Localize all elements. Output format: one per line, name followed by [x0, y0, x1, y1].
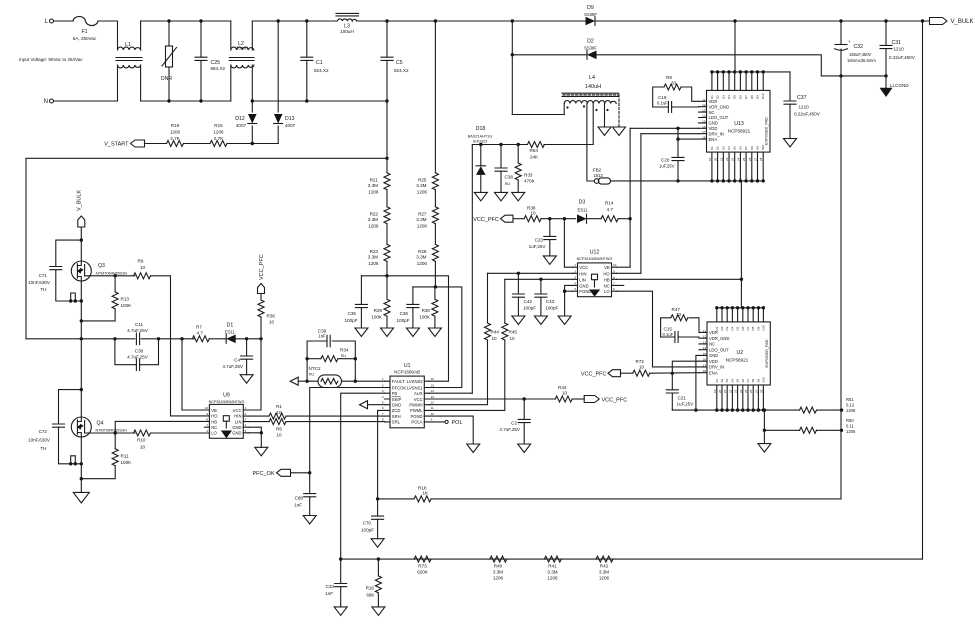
svg-text:R10: R10 — [137, 438, 146, 443]
capacitor C35 — [344, 276, 367, 328]
svg-text:10: 10 — [639, 365, 645, 370]
svg-text:C33: C33 — [326, 584, 335, 589]
svg-text:nu: nu — [309, 372, 314, 377]
resistor R23 — [368, 244, 390, 275]
svg-text:C36: C36 — [400, 311, 409, 316]
svg-text:DNR: DNR — [161, 76, 172, 82]
resistor R47 — [661, 307, 699, 337]
wire bulk to L4 — [512, 114, 564, 116]
svg-text:1K: 1K — [423, 491, 430, 496]
svg-text:5: 5 — [574, 287, 576, 291]
svg-text:13: 13 — [702, 109, 706, 113]
svg-text:824,X2: 824,X2 — [394, 68, 409, 73]
svg-text:R21: R21 — [370, 178, 379, 183]
wire N rail L1 to C5 — [141, 100, 387, 102]
svg-text:100pF: 100pF — [344, 318, 357, 323]
svg-text:D4: D4 — [727, 95, 731, 99]
IC U13 — [699, 72, 771, 181]
svg-text:R44: R44 — [491, 330, 500, 335]
svg-text:VDR_GND: VDR_GND — [709, 336, 729, 341]
svg-text:S3: S3 — [721, 146, 725, 150]
ground D18 — [474, 192, 487, 201]
svg-text:Q4: Q4 — [97, 421, 104, 427]
diode D13 — [274, 19, 296, 143]
svg-text:R7: R7 — [196, 325, 202, 330]
svg-text:D7: D7 — [744, 95, 748, 99]
svg-text:18: 18 — [703, 369, 707, 373]
svg-text:13: 13 — [431, 395, 435, 399]
svg-text:10: 10 — [140, 445, 146, 450]
wire U2 VDD tie — [671, 361, 699, 375]
capacitor C31 — [880, 19, 916, 88]
inductor L3 — [336, 13, 359, 34]
svg-text:VCC_PFC: VCC_PFC — [473, 217, 499, 223]
svg-text:R23: R23 — [370, 249, 379, 254]
svg-text:R33: R33 — [524, 173, 533, 178]
flag PFC_OK — [252, 469, 290, 477]
svg-text:20: 20 — [714, 157, 718, 161]
svg-text:nu: nu — [505, 181, 510, 186]
svg-text:HIN: HIN — [579, 271, 586, 276]
wire chain2 — [434, 21, 436, 173]
svg-text:0.11: 0.11 — [846, 424, 855, 429]
svg-text:C19: C19 — [658, 95, 667, 100]
wire L4 to FB2 — [587, 104, 594, 182]
wire shunt return — [840, 76, 842, 499]
svg-text:HB: HB — [211, 419, 217, 424]
svg-text:27: 27 — [754, 157, 758, 161]
svg-text:VCC: VCC — [414, 397, 423, 402]
svg-text:1206: 1206 — [368, 190, 379, 195]
resistor R6 — [248, 419, 384, 438]
svg-text:100K: 100K — [121, 303, 133, 308]
svg-text:DRV_IN: DRV_IN — [709, 131, 724, 136]
svg-text:NCP1680AB: NCP1680AB — [394, 370, 420, 375]
wire bottom rail — [339, 557, 923, 560]
svg-text:11: 11 — [703, 329, 706, 333]
svg-text:0.22uF,450V: 0.22uF,450V — [794, 112, 821, 117]
svg-text:L4: L4 — [589, 75, 595, 81]
svg-text:NCP51530BMNTWG: NCP51530BMNTWG — [209, 400, 245, 404]
svg-text:C1: C1 — [316, 60, 323, 66]
resistor R33 — [515, 145, 535, 193]
svg-text:C35: C35 — [348, 311, 357, 316]
wire U2 top bus — [715, 306, 765, 309]
svg-text:4007: 4007 — [236, 123, 247, 128]
svg-text:LLCGND: LLCGND — [890, 83, 909, 88]
wire U13 ENA net — [676, 137, 698, 140]
svg-text:D2: D2 — [720, 326, 724, 330]
svg-text:1206: 1206 — [493, 576, 504, 581]
svg-text:4.7uF,25V: 4.7uF,25V — [499, 427, 521, 432]
svg-text:S5: S5 — [733, 146, 737, 150]
svg-text:100pF: 100pF — [545, 306, 558, 311]
svg-text:3.3M: 3.3M — [368, 255, 378, 260]
svg-text:HIN: HIN — [234, 414, 241, 419]
wire SW rail — [81, 337, 194, 340]
svg-text:R22: R22 — [370, 212, 379, 217]
svg-text:S6: S6 — [741, 378, 745, 382]
ground C2 — [518, 444, 531, 453]
resistor R73 — [414, 556, 431, 574]
resistor R19 — [145, 123, 184, 147]
wire PFC_OK — [291, 471, 312, 474]
svg-text:100pF: 100pF — [396, 318, 409, 323]
svg-text:Input Voltage: 90Vac to 264Vac: Input Voltage: 90Vac to 264Vac — [19, 57, 83, 62]
resistor R50 — [763, 410, 856, 434]
node NTC left — [305, 359, 357, 383]
resistor R15 — [184, 123, 228, 147]
svg-text:22: 22 — [728, 389, 732, 393]
svg-text:D8: D8 — [751, 326, 755, 330]
svg-text:12: 12 — [431, 401, 435, 405]
wire L input — [54, 20, 74, 22]
ground U9 — [255, 447, 268, 456]
svg-text:C38: C38 — [505, 175, 514, 180]
svg-text:R19: R19 — [171, 123, 180, 128]
svg-text:C68: C68 — [295, 496, 304, 501]
wire N to divider — [385, 101, 388, 173]
svg-text:N: N — [44, 99, 48, 105]
flag VCC_PFC vertical — [258, 254, 265, 300]
wire U12 GND PGND — [563, 285, 573, 316]
svg-text:9: 9 — [431, 418, 433, 422]
capacitor C25 — [195, 19, 226, 102]
svg-text:1: 1 — [245, 406, 247, 410]
svg-text:22: 22 — [725, 157, 729, 161]
resistor R25 — [416, 173, 438, 207]
wire U13 drain riser — [733, 19, 736, 72]
resistor R30 — [419, 287, 438, 328]
svg-text:C21: C21 — [678, 396, 687, 401]
capacitor C21 — [666, 373, 694, 410]
svg-text:0.22uF,450V: 0.22uF,450V — [889, 55, 916, 60]
svg-text:5A, 250Vac: 5A, 250Vac — [73, 36, 97, 41]
arrow GND pin — [360, 401, 385, 409]
capacitor C43 — [535, 279, 559, 316]
wire U2 GND riser — [696, 355, 699, 410]
wire U2 bottom bus — [672, 408, 799, 411]
svg-text:NTMT064N65S3H: NTMT064N65S3H — [96, 272, 127, 276]
svg-text:D2: D2 — [587, 39, 594, 45]
svg-text:U13: U13 — [734, 121, 744, 127]
ground R50 — [758, 444, 771, 453]
svg-text:100pF: 100pF — [361, 528, 374, 533]
wire V_START to D12 D13 — [227, 142, 278, 145]
resistor R29 — [371, 276, 390, 328]
svg-text:C4: C4 — [234, 358, 240, 363]
svg-text:D5: D5 — [733, 95, 737, 99]
IC U9 — [204, 393, 248, 439]
svg-text:EXPOSED_PAD: EXPOSED_PAD — [765, 117, 769, 145]
svg-text:12: 12 — [702, 103, 706, 107]
svg-text:D8: D8 — [750, 95, 754, 99]
capacitor C4 — [222, 339, 252, 375]
svg-text:17: 17 — [702, 130, 706, 134]
flag V_BULK — [930, 18, 974, 26]
svg-text:+: + — [848, 39, 851, 44]
svg-text:100pF: 100pF — [523, 306, 536, 311]
svg-text:LIN: LIN — [579, 277, 586, 282]
wire Q3 gate — [85, 274, 135, 277]
svg-text:2.7K: 2.7K — [214, 136, 224, 141]
flag VCC_PFC mid — [473, 215, 513, 223]
wire Q4 source — [80, 437, 82, 492]
svg-text:R34: R34 — [340, 348, 349, 353]
svg-text:FB2: FB2 — [593, 168, 602, 173]
svg-text:4: 4 — [245, 423, 247, 427]
wire FB riser — [341, 393, 385, 559]
svg-text:SS38F: SS38F — [584, 12, 597, 17]
svg-text:24K: 24K — [530, 155, 539, 160]
Q3 gate bracket — [69, 293, 83, 303]
svg-text:7: 7 — [382, 412, 384, 416]
wire Q4 gate — [85, 431, 135, 434]
wire VB riser — [182, 339, 209, 410]
svg-text:C2: C2 — [511, 421, 517, 426]
wire U12 LO to U2 — [617, 291, 700, 367]
svg-text:10nF,630V: 10nF,630V — [28, 438, 51, 443]
svg-text:VB: VB — [604, 265, 610, 270]
wire U12 VCC riser — [564, 219, 572, 268]
svg-text:ENA: ENA — [709, 137, 718, 142]
IC U12 — [573, 250, 624, 297]
svg-text:PWMH: PWMH — [409, 403, 422, 408]
svg-text:AUX: AUX — [414, 391, 423, 396]
svg-text:C72: C72 — [39, 429, 48, 434]
inductor L2 — [229, 21, 254, 101]
flag VCC_PFC right — [584, 396, 627, 404]
svg-text:V_BULK: V_BULK — [77, 190, 83, 211]
svg-text:7: 7 — [613, 281, 615, 285]
svg-text:TH: TH — [40, 446, 46, 451]
svg-text:DRV_IN: DRV_IN — [709, 365, 724, 370]
svg-text:10: 10 — [510, 336, 516, 341]
resistor R42 — [596, 556, 613, 580]
svg-text:620K: 620K — [417, 570, 429, 575]
capacitor C38 — [495, 145, 513, 193]
flag VCC_PFC low — [581, 370, 621, 378]
resistor R14 — [587, 201, 632, 222]
svg-text:LVSNS2: LVSNS2 — [407, 379, 423, 384]
svg-text:824,X2: 824,X2 — [314, 68, 329, 73]
capacitor C72 — [28, 388, 83, 464]
diode D9 — [584, 5, 597, 26]
svg-text:28: 28 — [759, 389, 763, 393]
diode D3 — [577, 200, 588, 224]
svg-text:D2: D2 — [716, 95, 720, 99]
svg-text:1uF,25V: 1uF,25V — [529, 244, 547, 249]
wire U12 HB to SW — [617, 278, 744, 281]
diode D2 — [511, 39, 598, 60]
svg-text:17: 17 — [703, 363, 707, 367]
svg-text:D9: D9 — [756, 95, 760, 99]
svg-text:9: 9 — [613, 269, 615, 273]
wire PWML riser — [429, 340, 505, 410]
svg-text:3.3M: 3.3M — [547, 570, 557, 575]
svg-text:4.7uF,25V: 4.7uF,25V — [127, 328, 149, 333]
svg-text:HO: HO — [603, 271, 610, 276]
svg-text:PGND: PGND — [410, 414, 422, 419]
svg-text:D10: D10 — [761, 93, 765, 99]
svg-text:2: 2 — [245, 412, 247, 416]
svg-text:R45: R45 — [509, 330, 518, 335]
svg-text:D10: D10 — [761, 325, 765, 331]
wire R18 to shunt — [431, 498, 841, 500]
svg-text:NC: NC — [211, 425, 217, 430]
wire VDD to U12 VB riser — [629, 128, 631, 267]
ground C37 — [784, 139, 797, 148]
wire SW riser — [740, 181, 742, 308]
resistor R38 — [513, 206, 541, 222]
svg-text:R25: R25 — [418, 178, 427, 183]
svg-text:V_START: V_START — [104, 142, 129, 148]
wire fuse to L1 — [98, 20, 118, 22]
svg-text:C43: C43 — [546, 299, 555, 304]
svg-text:6: 6 — [382, 406, 384, 410]
svg-text:20: 20 — [718, 389, 722, 393]
fuse F1 — [73, 16, 98, 41]
IC U1 — [382, 363, 434, 428]
svg-text:SOD323: SOD323 — [473, 140, 488, 144]
svg-text:R42: R42 — [600, 564, 609, 569]
svg-text:6: 6 — [613, 287, 615, 291]
svg-text:R73: R73 — [418, 564, 427, 569]
svg-text:2: 2 — [382, 383, 384, 387]
svg-text:VCC: VCC — [233, 408, 242, 413]
wire R9 to U9 HO — [151, 276, 210, 416]
svg-text:SRL: SRL — [392, 420, 401, 425]
wire D9 to V_BULK — [595, 20, 929, 22]
wire U13 top bus — [710, 70, 790, 73]
transformer L4 — [562, 75, 619, 127]
thermistor NTC2 — [298, 366, 384, 388]
ground R33 — [512, 192, 525, 201]
svg-text:LDO_OUT: LDO_OUT — [709, 347, 729, 352]
svg-text:100K: 100K — [419, 315, 431, 320]
wire U12 HIN — [488, 272, 573, 275]
ground C70 — [371, 539, 384, 548]
svg-text:VB: VB — [211, 408, 217, 413]
svg-text:S4: S4 — [730, 378, 734, 382]
node chain2 top — [434, 19, 437, 22]
ground C4 — [240, 375, 253, 384]
wire R54 row — [472, 143, 527, 146]
wire AUX to riser — [429, 392, 472, 394]
resistor R18 — [378, 486, 432, 502]
svg-text:1nF: 1nF — [294, 503, 302, 508]
svg-text:150uF,450V: 150uF,450V — [849, 52, 872, 57]
svg-text:S4: S4 — [727, 146, 731, 150]
ground C68 — [303, 516, 316, 525]
svg-text:NCP58921: NCP58921 — [728, 129, 751, 134]
resistor R51 — [800, 397, 856, 413]
svg-text:4.7: 4.7 — [607, 207, 614, 212]
svg-text:R6: R6 — [276, 427, 282, 432]
svg-text:684,X2: 684,X2 — [211, 66, 226, 71]
svg-text:C11: C11 — [135, 322, 144, 327]
capacitor C19 — [653, 95, 699, 113]
svg-text:1: 1 — [382, 377, 384, 381]
svg-text:C31: C31 — [892, 40, 902, 46]
svg-text:S6: S6 — [738, 146, 742, 150]
svg-text:Q3: Q3 — [98, 263, 105, 269]
svg-text:S8: S8 — [750, 146, 754, 150]
svg-text:R28: R28 — [418, 249, 427, 254]
resistor R28 — [416, 244, 438, 287]
svg-text:27: 27 — [754, 389, 758, 393]
svg-text:25: 25 — [744, 389, 748, 393]
svg-text:1: 1 — [574, 263, 576, 267]
capacitor C36 — [396, 287, 418, 328]
ground Q4 — [73, 492, 89, 503]
capacitor C37 — [784, 72, 821, 139]
svg-text:NC: NC — [709, 110, 715, 115]
wire top rail L3 to D9 — [357, 20, 585, 22]
svg-text:7: 7 — [206, 423, 208, 427]
node ZCD low — [376, 497, 379, 500]
svg-text:PWML: PWML — [410, 408, 423, 413]
svg-text:R14: R14 — [605, 201, 614, 206]
svg-text:3.3M: 3.3M — [416, 255, 426, 260]
wire U12 VB — [617, 266, 631, 268]
svg-text:0.12: 0.12 — [846, 403, 855, 408]
svg-text:15: 15 — [703, 352, 707, 356]
U2 pin labels — [713, 325, 766, 393]
svg-text:SRH: SRH — [392, 414, 401, 419]
svg-text:1206: 1206 — [417, 224, 428, 229]
svg-text:D9: D9 — [756, 326, 760, 330]
svg-text:S7: S7 — [744, 146, 748, 150]
svg-text:4.7uF,25V: 4.7uF,25V — [222, 364, 244, 369]
capacitor C20 — [659, 128, 684, 181]
capacitor C23 — [529, 219, 556, 256]
svg-text:HB: HB — [604, 277, 610, 282]
flag V_BULK left — [77, 190, 85, 261]
svg-text:VCC_PFC: VCC_PFC — [602, 398, 628, 404]
svg-text:4.7: 4.7 — [197, 331, 204, 336]
wire U13 DRV_IN riser — [641, 134, 699, 274]
svg-text:14: 14 — [703, 346, 707, 350]
node Q3 drain — [80, 238, 83, 241]
svg-text:C70: C70 — [363, 521, 372, 526]
ground LLCGND — [880, 83, 910, 97]
resistor R11 — [80, 433, 133, 480]
svg-text:U2: U2 — [737, 350, 744, 356]
svg-text:21: 21 — [719, 157, 723, 161]
resistor R45 — [502, 279, 518, 341]
svg-text:4: 4 — [382, 395, 384, 399]
capacitor C11 — [127, 322, 149, 345]
svg-text:S9: S9 — [756, 146, 760, 150]
svg-text:1206: 1206 — [417, 261, 428, 266]
svg-text:GND: GND — [579, 283, 588, 288]
U13 pin labels — [708, 93, 765, 161]
svg-text:3.3M: 3.3M — [599, 570, 609, 575]
ground C23 — [543, 256, 556, 265]
svg-text:25: 25 — [742, 157, 746, 161]
svg-text:S1: S1 — [715, 378, 719, 382]
capacitor C71 — [28, 240, 81, 301]
ferrite bead FB2 — [593, 168, 611, 185]
wire ZCD riser — [378, 410, 385, 499]
wire U12 LIN — [505, 278, 573, 281]
wire loop to SW node — [26, 158, 387, 338]
flag V_START — [104, 140, 144, 148]
svg-text:R51: R51 — [846, 397, 854, 402]
svg-text:1uF,25V: 1uF,25V — [659, 164, 675, 169]
svg-text:POL: POL — [452, 420, 463, 426]
